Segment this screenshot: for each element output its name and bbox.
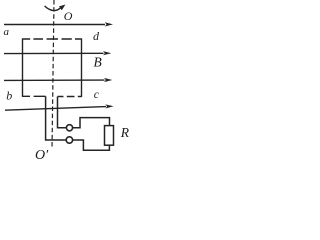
wire: upper brush to resistor top (73, 118, 110, 128)
wire: lower brush to resistor bottom (73, 140, 110, 150)
rotation axis OO' (dash-dot, slight lean) (52, 0, 54, 149)
coil: left edge ab (solid) (22, 38, 24, 97)
svg-text:O′: O′ (35, 148, 49, 163)
brush ring 2 (lower) (66, 137, 72, 143)
rotation direction arc at top (45, 5, 66, 11)
lead wire right (from coil to upper brush) (58, 97, 66, 128)
coil: top edge ad (dashed) (23, 38, 82, 40)
field line B1 (top) (4, 22, 113, 26)
svg-text:B: B (94, 55, 102, 70)
svg-text:R: R (120, 125, 130, 140)
coil: bottom edge bc right part (dashed) (58, 96, 82, 98)
coil: right edge dc (solid) (81, 38, 83, 97)
svg-text:a: a (4, 26, 10, 38)
svg-text:d: d (93, 29, 100, 43)
resistor R box (105, 126, 114, 146)
svg-text:c: c (94, 89, 99, 101)
svg-text:b: b (6, 89, 12, 103)
lead wire left (from coil to lower brush) (46, 96, 66, 140)
brush ring 1 (upper) (66, 125, 72, 131)
field line B3 (4, 78, 112, 82)
field line B4 (bottom, slight slope) (5, 104, 114, 110)
field line B2 (4, 51, 111, 55)
svg-text:O: O (64, 9, 73, 23)
coil: bottom edge bc left part (dashed) (23, 95, 46, 97)
